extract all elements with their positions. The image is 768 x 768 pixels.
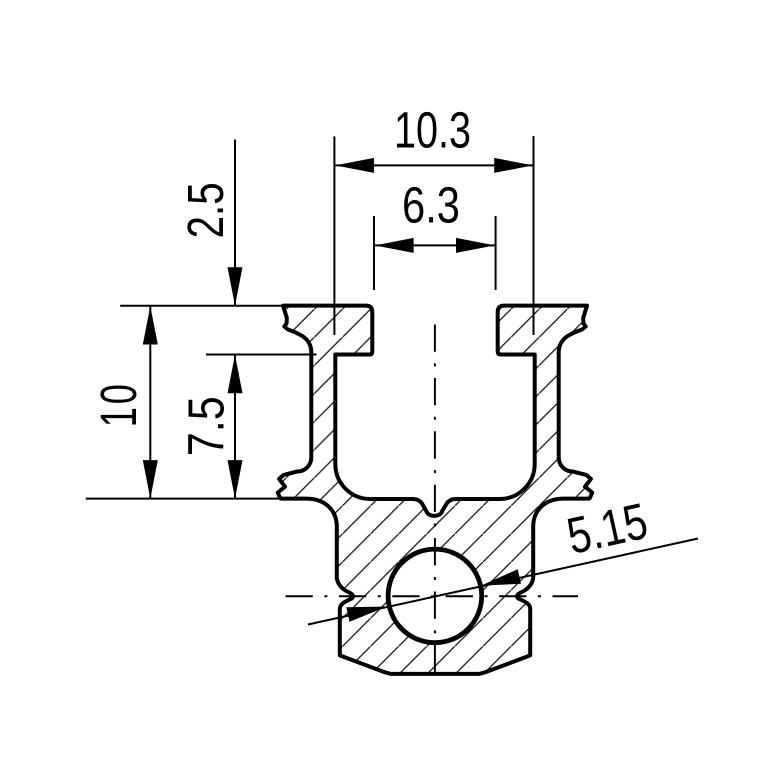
- dimension 6.3: dimension line: [375, 244, 495, 246]
- extension line channel floor level (left): [86, 498, 279, 500]
- profile outline: [278, 306, 592, 674]
- dimension 7.5: dimension line: [234, 355, 236, 499]
- profile section hatching (rail cross-section with bore hole): [278, 306, 592, 674]
- vertical centerline: [434, 325, 436, 675]
- dimension 7.5: arrows (top shared with 2.5): [228, 355, 243, 394]
- extension line flange underside (left): [206, 354, 317, 356]
- dimension 5.15: leader line: [308, 539, 698, 625]
- dimension 10: dimension line: [149, 306, 151, 499]
- dimension 6.3: extension lines: [373, 216, 375, 290]
- dimension 5.15: arrows at circle: [346, 607, 387, 622]
- extension line top of profile (left): [120, 305, 285, 307]
- bore hole circle: [388, 549, 482, 643]
- svg-text:10: 10: [90, 381, 147, 427]
- horizontal centerline: [286, 595, 579, 597]
- dimension 10: arrows: [143, 306, 158, 345]
- svg-text:10.3: 10.3: [394, 102, 471, 159]
- svg-text:6.3: 6.3: [402, 177, 460, 234]
- dimension 6.3: arrows: [375, 238, 414, 253]
- svg-text:2.5: 2.5: [177, 182, 234, 238]
- dimension 10.3: arrows: [335, 158, 374, 173]
- dimension 10.3: dimension line: [335, 164, 533, 166]
- svg-text:7.5: 7.5: [178, 396, 235, 456]
- dimension 2.5: upper line with down arrow: [234, 140, 236, 306]
- dimension 10.3: extension lines: [333, 136, 335, 335]
